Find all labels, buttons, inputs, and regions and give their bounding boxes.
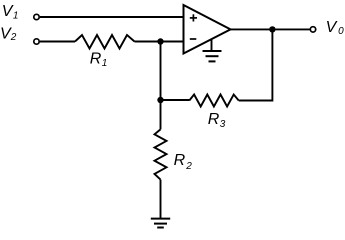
label R3 — [208, 111, 226, 130]
wire V2 terminal to R1 — [40, 41, 75, 43]
ground (bottom) — [151, 219, 170, 228]
label R2 — [174, 152, 193, 172]
svg-text:1: 1 — [102, 58, 108, 69]
ground (op-amp) — [203, 39, 222, 61]
node feedback junction — [157, 97, 163, 103]
resistor R1 — [75, 35, 135, 49]
node junction at inverting input — [157, 38, 163, 44]
wire feedback node to R3 — [161, 99, 190, 101]
svg-text:2: 2 — [185, 161, 192, 172]
svg-text:R: R — [90, 50, 102, 67]
svg-text:V: V — [2, 3, 14, 20]
svg-text:3: 3 — [220, 119, 226, 130]
svg-text:R: R — [174, 152, 186, 169]
label V2 — [0, 26, 17, 43]
wire op-amp output to V0 terminal — [231, 28, 310, 30]
resistor R3 — [189, 95, 238, 107]
wire junction down to feedback node — [160, 42, 162, 101]
terminal V2 — [34, 39, 39, 44]
op-amp U1 — [184, 5, 231, 54]
resistor R2 — [155, 129, 167, 179]
label V1 — [2, 3, 19, 21]
svg-text:2: 2 — [10, 32, 17, 43]
wire R2 to ground — [160, 180, 162, 219]
svg-text:V: V — [326, 19, 338, 36]
svg-text:R: R — [208, 111, 220, 128]
wire R3 to output node — [239, 29, 273, 100]
label V0 — [326, 19, 345, 37]
terminal V0 — [310, 27, 315, 32]
label R1 — [90, 50, 108, 69]
node output junction — [269, 26, 275, 32]
svg-text:1: 1 — [13, 11, 19, 22]
wire V1 to op-amp + input — [40, 16, 184, 18]
wire feedback node down to R2 — [160, 100, 162, 129]
svg-text:0: 0 — [338, 26, 344, 37]
wire R1 to op-amp - input — [135, 41, 184, 43]
terminal V1 — [34, 14, 39, 19]
